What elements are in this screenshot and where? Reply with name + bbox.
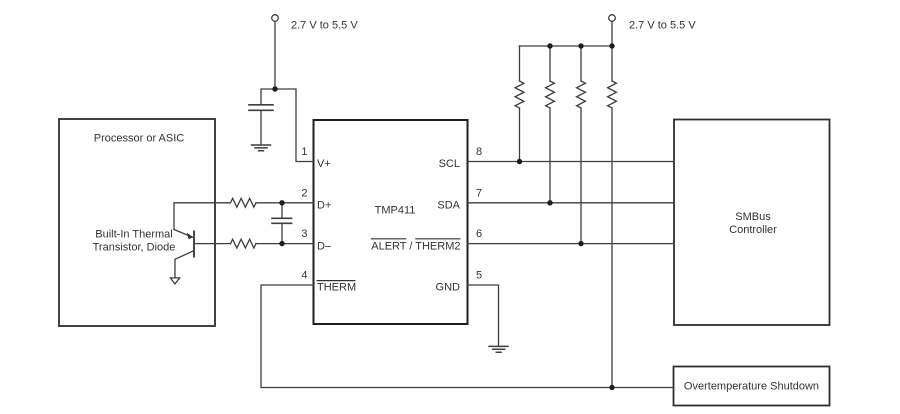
wire: GND pin 5 to ground — [468, 285, 499, 346]
wire: C2 lead to D- node — [281, 223, 283, 243]
wire: D+ pin 2 to resistor R1 — [256, 202, 314, 204]
wire: column 3 lower lead to ALERT — [580, 108, 582, 244]
wire: ALERT/THERM2 pin 6 to SMBus controller — [468, 243, 675, 245]
wire: SDA pin 7 to SMBus controller — [468, 202, 675, 204]
svg-text:SMBus: SMBus — [735, 211, 771, 223]
svg-text:2.7 V to 5.5 V: 2.7 V to 5.5 V — [291, 19, 358, 31]
junction: SDA pull-up — [547, 200, 552, 205]
transistor Q1 built-in thermal PNP — [193, 231, 195, 256]
wire: V2 stem to pull-up bus — [611, 22, 613, 47]
wire: column 4 upper lead — [611, 46, 613, 81]
resistor R5 (ALERT pull-up) — [577, 81, 586, 108]
wire: column 3 upper lead — [580, 46, 582, 81]
box: Processor or ASIC — [59, 119, 215, 326]
svg-text:TMP411: TMP411 — [375, 205, 416, 217]
junction: SCL pull-up — [517, 159, 522, 164]
supply terminal V1 2.7V-5.5V — [272, 15, 279, 22]
ground: earth symbol at GND pin — [489, 346, 508, 352]
svg-text:8: 8 — [476, 146, 482, 158]
svg-text:Overtemperature Shutdown: Overtemperature Shutdown — [684, 380, 819, 392]
svg-text:4: 4 — [301, 270, 307, 282]
wire: V1 stem down to junction — [274, 22, 276, 90]
junction: V1 node — [272, 86, 277, 91]
junction: bus at R6 — [609, 43, 614, 48]
svg-text:Transistor, Diode: Transistor, Diode — [93, 241, 176, 253]
resistor R6 (THERM pull-up) — [608, 81, 617, 108]
ground: earth symbol below C1 — [252, 145, 271, 151]
junction: D- / C2 node — [279, 241, 284, 246]
junction: ALERT pull-up — [578, 241, 583, 246]
wire: R1 to thermal transistor collector-emitter node — [174, 203, 231, 230]
wire: column 4 lower lead to shutdown wire — [611, 108, 613, 388]
capacitor C2 (D+ to D-) — [272, 218, 292, 223]
supply terminal V2 2.7V-5.5V — [609, 15, 616, 22]
junction: bus at R4 — [547, 43, 552, 48]
box: TMP411 U1 — [314, 120, 468, 324]
svg-text:ALERT / THERM2: ALERT / THERM2 — [371, 240, 460, 252]
junction: D+ / C2 node — [279, 200, 284, 205]
wire: column 1 upper lead — [519, 46, 521, 81]
resistor R4 (SDA pull-up) — [546, 81, 555, 108]
svg-text:V+: V+ — [317, 158, 331, 170]
svg-text:3: 3 — [301, 228, 307, 240]
svg-text:2.7 V to 5.5 V: 2.7 V to 5.5 V — [629, 19, 696, 31]
junction: bus at R5 — [578, 43, 583, 48]
svg-text:Processor or ASIC: Processor or ASIC — [94, 133, 185, 145]
svg-text:GND: GND — [436, 282, 461, 294]
svg-text:SCL: SCL — [439, 158, 460, 170]
wire: pull-up supply bus — [520, 45, 613, 47]
resistor R1 (D+ series) — [231, 198, 257, 207]
svg-text:D+: D+ — [317, 200, 331, 212]
svg-text:5: 5 — [476, 270, 482, 282]
wire: R2 to transistor base — [194, 243, 231, 245]
svg-text:1: 1 — [301, 146, 307, 158]
wire: column 1 lower lead to SCL — [519, 108, 521, 162]
wire: THERM pin 4 down and across to shutdown box — [261, 285, 674, 388]
ground: arrow ground at Q1 collector — [170, 278, 179, 284]
wire: C2 lead from D+ node — [281, 203, 283, 217]
junction: shutdown wire — [609, 385, 614, 390]
svg-text:Built-In Thermal: Built-In Thermal — [95, 228, 172, 240]
resistor R3 (SCL pull-up) — [515, 81, 524, 108]
svg-text:Controller: Controller — [729, 224, 777, 236]
box: Overtemperature Shutdown — [674, 367, 830, 406]
svg-text:2: 2 — [301, 187, 307, 199]
wire: D- pin 3 to resistor R2 — [256, 243, 314, 245]
wire: SCL pin 8 to SMBus controller — [468, 161, 675, 163]
resistor R2 (D- series) — [231, 239, 257, 248]
svg-text:SDA: SDA — [437, 200, 460, 212]
wire: junction to V+ pin 1 — [275, 89, 314, 162]
capacitor C1 — [249, 105, 273, 111]
svg-text:6: 6 — [476, 228, 482, 240]
svg-text:7: 7 — [476, 187, 482, 199]
wire: column 2 lower lead to SDA — [549, 108, 551, 203]
box: SMBus Controller — [674, 120, 830, 326]
wire: junction to capacitor C1 top — [261, 89, 275, 104]
svg-text:D–: D– — [317, 240, 332, 252]
wire: C1 bottom to ground — [260, 110, 262, 144]
wire: column 2 upper lead — [549, 46, 551, 81]
svg-text:THERM: THERM — [317, 282, 356, 294]
